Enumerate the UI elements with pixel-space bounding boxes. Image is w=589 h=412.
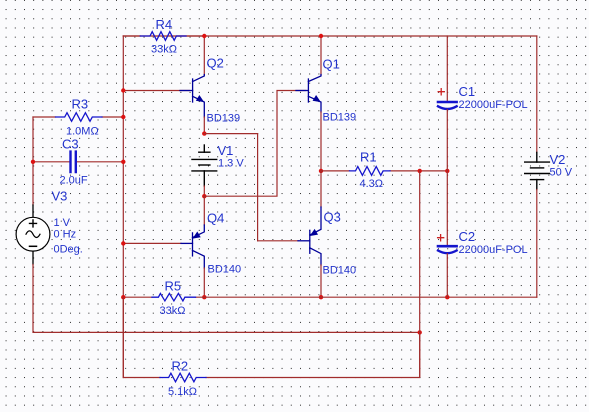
battery V1 — [192, 145, 217, 186]
wire Q2 emitter to V1 — [203, 117, 205, 134]
svg-text:Q3: Q3 — [324, 210, 341, 225]
svg-text:R1: R1 — [360, 150, 377, 165]
svg-text:50 V: 50 V — [550, 167, 573, 179]
wire Q2 base — [123, 90, 189, 92]
transistor Q4 — [181, 225, 204, 268]
wire Q3 emitter from R1 node — [320, 171, 322, 207]
svg-text:R3: R3 — [72, 97, 89, 112]
svg-text:V2: V2 — [550, 152, 566, 167]
svg-text:0 Hz: 0 Hz — [54, 229, 77, 241]
battery V2 — [525, 36, 573, 297]
node junction (419.7,332.4) — [418, 330, 422, 334]
wire Q3 collector down — [320, 265, 322, 297]
resistor R5 — [123, 279, 204, 317]
resistor R4 — [123, 17, 204, 56]
AC source V3 — [16, 205, 50, 265]
svg-text:BD140: BD140 — [208, 264, 242, 276]
svg-text:R4: R4 — [156, 17, 173, 32]
resistor R1 — [321, 150, 447, 191]
resistor R2 — [123, 297, 419, 398]
wire V3 bottom to ground rail — [33, 265, 420, 333]
svg-text:V3: V3 — [52, 189, 68, 204]
svg-text:0Deg.: 0Deg. — [54, 243, 83, 255]
transistor Q3 — [298, 207, 321, 265]
svg-text:R2: R2 — [172, 359, 189, 374]
capacitor C2 — [438, 171, 528, 297]
wire Q2 collector — [203, 36, 205, 75]
wire Q1 emitter down to R1 node — [320, 112, 322, 171]
node junction (419.7,170.9) — [418, 169, 422, 173]
svg-text:33kΩ: 33kΩ — [151, 44, 177, 56]
wire crossover column down — [257, 134, 259, 241]
node junction (204,196.2) — [202, 194, 206, 198]
svg-text:Q1: Q1 — [323, 57, 340, 72]
node junction (447.3,170.9) — [445, 169, 449, 173]
wire Q3 base — [258, 240, 298, 242]
svg-text:4.3Ω: 4.3Ω — [360, 178, 384, 190]
wire bottom rail — [204, 296, 537, 298]
svg-text:V1: V1 — [218, 143, 234, 158]
node junction (123,161.8) — [121, 160, 125, 164]
svg-text:C1: C1 — [459, 84, 476, 99]
node junction (123,243.4) — [121, 241, 125, 245]
node junction (321,297.2) — [319, 295, 323, 299]
svg-text:1.3 V: 1.3 V — [218, 158, 244, 170]
transistor Q1 — [296, 75, 321, 113]
svg-text:BD139: BD139 — [323, 112, 357, 124]
svg-text:BD139: BD139 — [207, 113, 241, 125]
node junction (123,90.5) — [121, 88, 125, 92]
node junction (321,170.9) — [319, 169, 323, 173]
node junction (204,297.2) — [202, 295, 206, 299]
node junction (204,133.6) — [202, 131, 206, 135]
transistor Q2 — [180, 75, 204, 118]
svg-text:33kΩ: 33kΩ — [160, 305, 186, 317]
wire feedback riser — [419, 171, 421, 377]
wire emitter node to crossover column — [204, 133, 257, 135]
wire Q4 base — [123, 242, 181, 244]
svg-text:1 V: 1 V — [54, 217, 71, 229]
svg-text:Q4: Q4 — [207, 211, 224, 226]
node junction (123,117) — [121, 115, 125, 119]
wire V1 bottom — [203, 186, 205, 196]
resistor R3 — [33, 97, 123, 138]
wire Q4 collector down — [203, 268, 205, 297]
wire R3 left down to C3 — [32, 117, 34, 205]
svg-text:BD140: BD140 — [323, 265, 357, 277]
wire V1 bottom to Q1 base riser — [204, 91, 305, 197]
svg-text:Q2: Q2 — [207, 56, 224, 71]
wire left vertical bus — [122, 36, 124, 378]
svg-text:C2: C2 — [459, 229, 476, 244]
svg-text:22000uF-POL: 22000uF-POL — [459, 99, 528, 111]
capacitor C1 — [438, 36, 528, 171]
node junction (123,297.2) — [121, 295, 125, 299]
node junction (447.3,297.2) — [445, 295, 449, 299]
svg-text:22000uF-POL: 22000uF-POL — [459, 244, 528, 256]
svg-text:R5: R5 — [165, 279, 182, 294]
node junction (204,36) — [202, 34, 206, 38]
wire top rail — [123, 35, 537, 37]
svg-text:C3: C3 — [62, 137, 79, 152]
svg-text:5.1kΩ: 5.1kΩ — [168, 386, 197, 398]
capacitor C3 — [33, 137, 123, 187]
wire Q4 emitter from V1 node — [203, 196, 205, 225]
svg-text:2.0uF: 2.0uF — [60, 175, 88, 187]
node junction (33,161.8) — [31, 160, 35, 164]
wire Q1 collector — [320, 36, 322, 75]
node junction (321,36) — [319, 34, 323, 38]
